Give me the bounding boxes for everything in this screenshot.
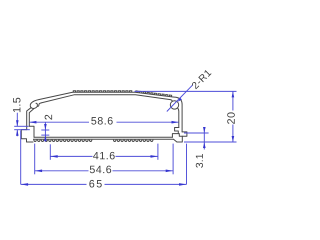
dim 65 line left part: [21, 183, 87, 185]
bottom panel top surface: [34, 136, 172, 138]
profile: left hook to wall link outer: [27, 108, 31, 130]
bottom panel chamfer to right foot: [174, 139, 177, 142]
dim 54.6 ext right: [172, 144, 174, 175]
profile: left hook inner lip: [38, 103, 42, 107]
profile: top plate outer left slope: [39, 92, 72, 99]
dim 3.1 vertical line: [203, 129, 205, 150]
dim 41.6 line left part: [51, 155, 93, 157]
dim 41.6 left arrow: [51, 155, 58, 158]
dim 65 line right part: [105, 183, 187, 185]
profile: top plate inner (lower) surface: [41, 95, 172, 103]
dim 65 left arrow: [21, 183, 28, 186]
dim 41.6 ext left: [49, 144, 51, 160]
dim 3.1 lower arrow (pointing up): [203, 142, 206, 148]
dim 20 text (rotated): [227, 112, 235, 123]
dim 65 ext left: [20, 131, 22, 185]
profile: right wall bottom foot outer: [177, 132, 187, 142]
dim 41.6 text: [93, 152, 115, 160]
dim 41.6 ext right: [157, 144, 159, 160]
dim 65 text: [89, 180, 101, 188]
dim 58.6 line right part: [117, 121, 179, 123]
dim 58.6 right arrow: [172, 121, 179, 124]
dim 65 ext right: [186, 144, 188, 185]
dim 3.1 upper arrow (pointing down): [203, 127, 206, 133]
dim 20 top arrow (pointing up): [232, 92, 235, 98]
label 2-R1 text (rotated 45): [191, 69, 211, 89]
dim 1.5 ext upper: [14, 125, 28, 127]
profile: right wall panel pocket roof: [172, 134, 182, 138]
dim 54.6 right arrow: [166, 170, 173, 173]
dim 2 vertical line: [44, 122, 46, 141]
dim 1.5 upper arrow (pointing down): [16, 120, 19, 126]
profile: boss to inner wall face link: [178, 108, 179, 128]
profile: corner screw boss circle: [170, 101, 178, 109]
dim 54.6 text: [90, 166, 111, 174]
dim 58.6 text: [91, 117, 112, 125]
profile: left hook to wall link inner: [29, 109, 34, 127]
dim 54.6 ext left: [34, 144, 36, 175]
dim 3.1 ext upper: [184, 132, 209, 134]
profile: left hook outer curl and loop: [30, 100, 39, 109]
dim 2 tick upper: [41, 129, 49, 131]
dim 54.6 left arrow: [35, 170, 42, 173]
dim 3.1 text (rotated): [196, 154, 203, 168]
dim 2 lower arrow (pointing up): [44, 135, 47, 141]
profile: right wall inner notch steps: [175, 128, 179, 134]
dim 54.6 line right part: [113, 170, 173, 172]
dim 2 tick lower: [41, 134, 49, 136]
profile: left wall inner ledge: [29, 126, 34, 137]
dim 41.6 right arrow: [151, 155, 158, 158]
dim 41.6 line right part: [116, 155, 158, 157]
dim 1.5 text (rotated): [13, 98, 20, 112]
profile: top flat base line: [73, 91, 136, 93]
profile: serrated top slope section: [136, 91, 172, 97]
dim 2 upper arrow (pointing down): [44, 124, 47, 130]
dim 20 top extension line: [135, 90, 237, 92]
bottom panel bottom surface line: [33, 138, 173, 140]
dim 20 vertical line lower part: [232, 125, 234, 143]
bottom panel serrated underside right segment: [113, 140, 153, 142]
dim 58.6 line left part: [29, 121, 89, 123]
profile: serrated top flat section: [73, 91, 131, 93]
dim 65 right arrow: [179, 183, 186, 186]
dim 1.5 ext lower: [14, 129, 30, 131]
profile: top slope base line: [135, 92, 173, 97]
dim 20 / 3.1 bottom extension line: [184, 141, 237, 143]
dim 1.5 lower arrow (pointing up): [16, 130, 19, 136]
dim 54.6 line left part: [35, 170, 89, 172]
profile: left wall bottom notch outer: [21, 130, 33, 142]
dim 1.5 vertical line: [16, 113, 18, 136]
dim 20 vertical line upper part: [232, 91, 234, 110]
profile: top-right outer corner R1 and right wall outer face: [173, 97, 182, 132]
dim 58.6 left arrow: [29, 121, 36, 124]
leader 2-R1 arrowhead: [178, 98, 182, 102]
dim 2 text (rotated): [45, 115, 52, 120]
leader 2-R1 diagonal line: [167, 85, 193, 112]
bottom panel serrated underside left segment: [34, 140, 92, 142]
dim 20 bottom arrow (pointing down): [232, 136, 235, 142]
